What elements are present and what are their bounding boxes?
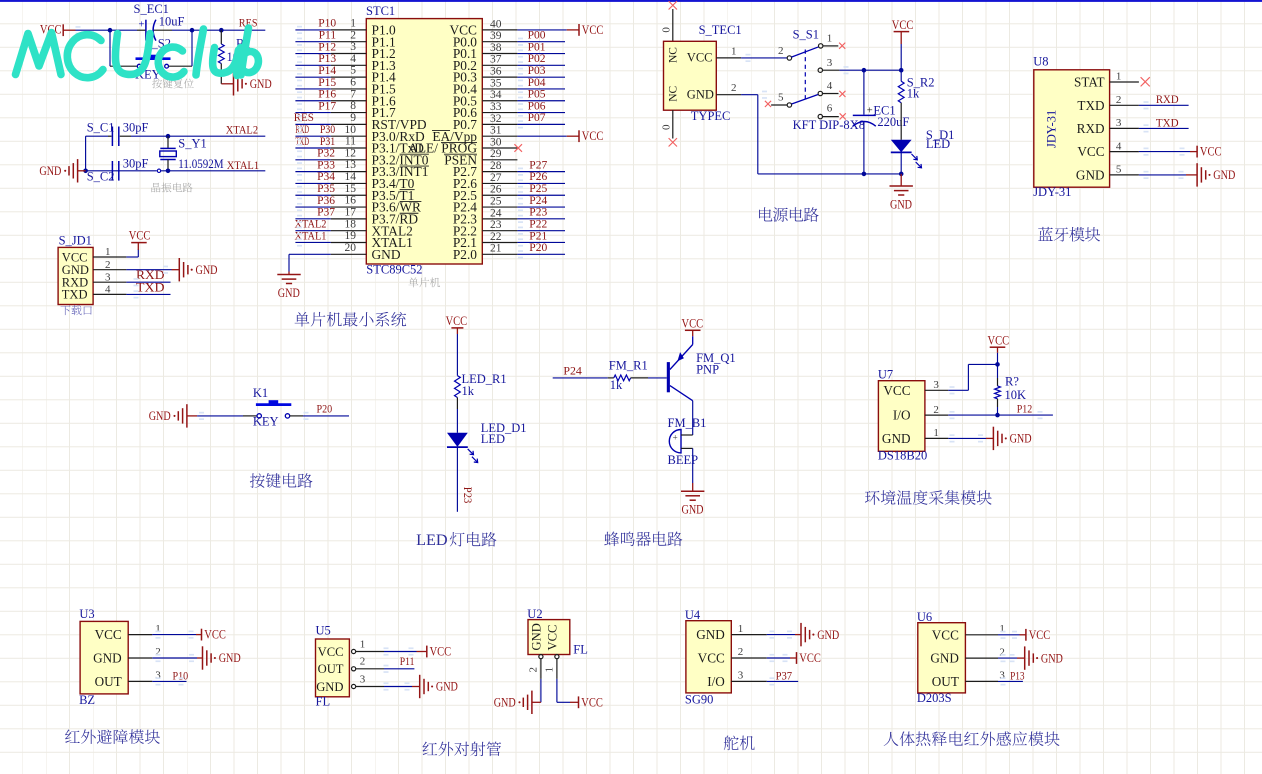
wire U6 VCC bbox=[998, 634, 1020, 636]
svg-text:XTAL1: XTAL1 bbox=[295, 230, 327, 242]
wire P17 to STC1 bbox=[295, 112, 330, 114]
node junction bottom rail LED bbox=[899, 172, 904, 177]
svg-text:P21: P21 bbox=[529, 230, 547, 242]
svg-text:3: 3 bbox=[360, 673, 366, 685]
svg-text:TXD: TXD bbox=[295, 136, 309, 148]
svg-text:GND: GND bbox=[890, 198, 912, 212]
svg-text:GND: GND bbox=[687, 87, 714, 101]
svg-text:VCC: VCC bbox=[988, 333, 1010, 347]
svg-text:3: 3 bbox=[933, 379, 939, 391]
node junction resistor top bbox=[219, 28, 224, 33]
svg-text:1: 1 bbox=[738, 623, 744, 635]
caption 人体热释电红外感应模块 bbox=[884, 731, 1060, 746]
node junction XTAL2 bbox=[166, 134, 171, 139]
svg-text:1: 1 bbox=[360, 638, 366, 650]
wire P05 from STC1 bbox=[517, 100, 565, 102]
svg-text:FL: FL bbox=[316, 694, 331, 708]
no-connect X switch pin 4 bbox=[839, 91, 845, 97]
svg-text:1k: 1k bbox=[610, 378, 623, 392]
svg-text:VCC: VCC bbox=[129, 229, 151, 243]
svg-text:P32: P32 bbox=[317, 148, 335, 160]
svg-text:P11: P11 bbox=[319, 30, 337, 42]
svg-text:P23: P23 bbox=[461, 487, 475, 504]
wire VCC pin40 of STC1 bbox=[517, 29, 566, 31]
svg-text:STAT: STAT bbox=[1074, 75, 1104, 90]
svg-text:P10: P10 bbox=[318, 18, 336, 30]
wire EA/Vpp pin31 to VCC bbox=[517, 135, 566, 137]
overline EA on pin 31 bbox=[432, 130, 450, 132]
svg-text:P27: P27 bbox=[529, 159, 547, 171]
svg-text:LED: LED bbox=[926, 137, 950, 151]
svg-text:VCC: VCC bbox=[1029, 628, 1051, 642]
svg-text:P04: P04 bbox=[528, 77, 546, 89]
svg-text:5: 5 bbox=[350, 65, 356, 77]
wire key branch right up bbox=[191, 30, 193, 66]
svg-text:P14: P14 bbox=[318, 65, 336, 77]
svg-text:31: 31 bbox=[490, 125, 502, 137]
switch S_S1 blade lower bbox=[792, 95, 819, 105]
wire P14 to STC1 bbox=[295, 76, 330, 78]
wire P25 from STC1 bbox=[517, 194, 565, 196]
overline WR on pin 16 bbox=[400, 200, 422, 202]
svg-text:P30: P30 bbox=[320, 124, 336, 136]
caption 按键复位 bbox=[152, 79, 194, 89]
wire U3 VCC bbox=[152, 634, 196, 636]
svg-text:VCC: VCC bbox=[883, 383, 910, 398]
wire U4 VCC bbox=[767, 657, 790, 659]
svg-text:P11: P11 bbox=[400, 654, 415, 668]
wire collector to buzzer bbox=[692, 401, 694, 435]
pin 0 top of S_TEC1 bbox=[672, 9, 674, 41]
switch S_S1 pin 4 bbox=[818, 91, 822, 95]
svg-text:GND: GND bbox=[682, 503, 704, 517]
wire key to P20 bbox=[303, 415, 349, 417]
wire TXD P31 to STC1 bbox=[295, 147, 330, 149]
ground GND (S_JD1) bbox=[178, 258, 180, 281]
svg-text:KEY: KEY bbox=[253, 414, 279, 428]
svg-text:P37: P37 bbox=[317, 207, 335, 219]
ground GND (crystal) bbox=[78, 170, 86, 172]
svg-text:30: 30 bbox=[490, 136, 502, 148]
svg-text:10uF: 10uF bbox=[159, 14, 185, 28]
svg-text:0: 0 bbox=[661, 124, 673, 130]
svg-text:FM_B1: FM_B1 bbox=[668, 416, 707, 430]
wire P15 to STC1 bbox=[295, 88, 330, 90]
svg-text:TXD: TXD bbox=[1077, 98, 1104, 113]
ground GND (STC1) bbox=[277, 274, 300, 276]
switch S_S1 blade upper bbox=[791, 47, 818, 57]
svg-text:P16: P16 bbox=[318, 89, 336, 101]
svg-text:U6: U6 bbox=[917, 610, 932, 624]
no-connect X switch pin 1 bbox=[839, 43, 845, 49]
svg-text:RXD: RXD bbox=[1156, 92, 1179, 106]
pin 1 stub of S_TEC1 bbox=[716, 57, 741, 59]
svg-text:S_JD1: S_JD1 bbox=[59, 234, 92, 248]
capacitor S_EC1 10uF bbox=[137, 29, 146, 31]
svg-text:P00: P00 bbox=[528, 30, 546, 42]
svg-text:VCC: VCC bbox=[581, 695, 603, 709]
svg-text:BZ: BZ bbox=[79, 693, 95, 707]
no-connect X switch pin 6 bbox=[840, 113, 846, 119]
svg-text:10: 10 bbox=[345, 124, 357, 136]
wire S_TEC1 pin1 to switch bbox=[741, 57, 787, 59]
svg-text:29: 29 bbox=[490, 148, 502, 160]
svg-text:R?: R? bbox=[1005, 375, 1019, 389]
switch S_S2 KEY (reset button) bbox=[110, 65, 137, 67]
svg-text:20: 20 bbox=[345, 242, 357, 254]
svg-text:NC: NC bbox=[668, 85, 680, 101]
svg-text:13: 13 bbox=[345, 159, 357, 171]
svg-text:220uF: 220uF bbox=[877, 115, 909, 129]
connector S_TEC1 body bbox=[664, 41, 717, 110]
wire S_TEC1 pin2 to bottom rail bbox=[741, 94, 758, 96]
wire RXD P30 to STC1 bbox=[295, 135, 330, 137]
power port VCC (U3) bbox=[201, 629, 203, 641]
svg-text:P15: P15 bbox=[318, 77, 336, 89]
svg-text:40: 40 bbox=[490, 18, 502, 30]
ground GND (U6) bbox=[1024, 646, 1026, 669]
svg-text:FM_R1: FM_R1 bbox=[609, 359, 648, 373]
caption 舵机 bbox=[724, 736, 755, 751]
svg-text:OUT: OUT bbox=[95, 674, 122, 689]
wire GND pin20 of STC1 bbox=[289, 253, 331, 255]
svg-text:25: 25 bbox=[490, 195, 502, 207]
svg-text:+: + bbox=[867, 105, 873, 116]
svg-text:10K: 10K bbox=[1005, 388, 1027, 402]
wire P16 to STC1 bbox=[295, 100, 330, 102]
wire U7 GND pin1 bbox=[948, 437, 986, 439]
svg-text:19: 19 bbox=[345, 230, 357, 242]
wire bottom crystal row bbox=[86, 170, 157, 172]
wire U8 VCC bbox=[1139, 151, 1190, 153]
svg-text:1: 1 bbox=[350, 18, 356, 30]
pin 0 bottom of S_TEC1 bbox=[672, 110, 674, 138]
caption 单片机最小系统 bbox=[295, 312, 407, 327]
wire P36 to STC1 bbox=[295, 206, 330, 208]
LED LED_D1 bbox=[447, 433, 468, 447]
svg-text:1: 1 bbox=[827, 32, 833, 44]
wire P34 to STC1 bbox=[295, 182, 330, 184]
svg-text:3: 3 bbox=[350, 41, 356, 53]
svg-text:P02: P02 bbox=[528, 53, 546, 65]
MCU STC1 body bbox=[366, 19, 482, 264]
svg-text:STC1: STC1 bbox=[366, 4, 395, 18]
svg-text:1: 1 bbox=[544, 667, 556, 673]
svg-text:GND: GND bbox=[696, 627, 725, 642]
svg-text:1: 1 bbox=[933, 427, 939, 439]
svg-text:P2.0: P2.0 bbox=[453, 247, 477, 262]
svg-text:P37: P37 bbox=[776, 669, 793, 683]
svg-text:P23: P23 bbox=[529, 207, 547, 219]
no-connect X bottom of S_TEC1 bbox=[669, 138, 677, 146]
svg-text:4: 4 bbox=[105, 284, 111, 296]
caption 下载口 bbox=[60, 305, 91, 315]
power port VCC (pin31) bbox=[578, 130, 580, 142]
caption 单片机 bbox=[408, 277, 440, 287]
svg-text:17: 17 bbox=[345, 206, 357, 218]
svg-text:30pF: 30pF bbox=[123, 121, 149, 135]
svg-text:1: 1 bbox=[1116, 71, 1122, 83]
svg-text:VCC: VCC bbox=[204, 628, 226, 642]
svg-text:P01: P01 bbox=[528, 41, 546, 53]
resistor R? 10K bbox=[997, 364, 999, 378]
svg-text:1k: 1k bbox=[907, 87, 920, 101]
svg-text:OUT: OUT bbox=[318, 662, 344, 676]
svg-text:15: 15 bbox=[345, 183, 357, 195]
pin 2 stub of S_TEC1 bbox=[716, 94, 741, 96]
wire U6 GND bbox=[998, 657, 1017, 659]
node junction pullup bottom bbox=[995, 413, 1000, 418]
overline T1 on pin 15 bbox=[400, 189, 415, 191]
svg-text:3: 3 bbox=[1116, 117, 1122, 129]
switch S_S1 pin 5 bbox=[771, 104, 787, 106]
wire P06 from STC1 bbox=[517, 112, 565, 114]
svg-text:27: 27 bbox=[490, 172, 502, 184]
wire to net label XTAL2 bbox=[168, 135, 265, 137]
svg-text:LED: LED bbox=[416, 531, 448, 549]
wire RES node to resistor bbox=[192, 29, 221, 31]
caption 环境温度采集模块 bbox=[865, 490, 992, 505]
caption 按键电路 bbox=[250, 473, 313, 488]
svg-text:34: 34 bbox=[490, 89, 502, 101]
wire S_JD1 pin4 TXD bbox=[126, 293, 170, 295]
wire P33 to STC1 bbox=[295, 171, 330, 173]
svg-text:S_TEC1: S_TEC1 bbox=[699, 23, 742, 37]
svg-text:1: 1 bbox=[731, 45, 737, 57]
wire U3 GND bbox=[152, 657, 197, 659]
svg-text:4: 4 bbox=[1116, 140, 1122, 152]
caption 蜂鸣器电路 bbox=[604, 532, 682, 547]
svg-text:3: 3 bbox=[105, 271, 111, 283]
node junction reset-left bbox=[108, 28, 113, 33]
svg-text:GND: GND bbox=[1041, 651, 1063, 665]
svg-text:P10: P10 bbox=[173, 669, 189, 683]
svg-text:P07: P07 bbox=[528, 112, 546, 124]
wire P24 to FM_R1 bbox=[553, 377, 608, 379]
switch S_S1 pin 2 bbox=[787, 56, 791, 60]
svg-text:P31: P31 bbox=[320, 136, 336, 148]
svg-text:GND: GND bbox=[817, 628, 839, 642]
wire U4 GND bbox=[767, 634, 795, 636]
svg-text:RES: RES bbox=[294, 112, 314, 124]
wire RES to STC1 bbox=[295, 123, 330, 125]
svg-text:39: 39 bbox=[490, 30, 502, 42]
svg-text:GND: GND bbox=[930, 651, 959, 666]
svg-text:VCC: VCC bbox=[1077, 144, 1104, 159]
caption 蓝牙模块 bbox=[1038, 227, 1100, 242]
wire P13 to STC1 bbox=[295, 64, 330, 66]
wire U5 OUT to P11 bbox=[384, 668, 414, 670]
ground GND (U2) bbox=[531, 691, 533, 714]
no-connect X pin1 STAT bbox=[1141, 77, 1150, 86]
resistor FM_R1 1k bbox=[608, 377, 614, 379]
ground GND (U3) bbox=[202, 646, 204, 669]
power port VCC (U8) bbox=[1196, 146, 1198, 158]
wire P37 to STC1 bbox=[295, 218, 330, 220]
overline INT1 on pin 13 bbox=[400, 165, 429, 167]
wire P12 to STC1 bbox=[295, 53, 330, 55]
svg-text:SG90: SG90 bbox=[685, 693, 713, 707]
no-connect X top of S_TEC1 bbox=[669, 1, 677, 9]
svg-text:GND: GND bbox=[93, 651, 122, 666]
svg-text:1: 1 bbox=[105, 246, 111, 258]
svg-text:P24: P24 bbox=[529, 195, 547, 207]
power port VCC (U4) bbox=[796, 652, 798, 664]
svg-text:NC: NC bbox=[668, 47, 680, 63]
svg-text:4: 4 bbox=[350, 53, 356, 65]
svg-text:GND: GND bbox=[882, 431, 911, 446]
ground GND (U5) bbox=[419, 675, 421, 698]
svg-text:TXD: TXD bbox=[62, 288, 88, 302]
svg-text:JDY-31: JDY-31 bbox=[1033, 185, 1071, 199]
switch S_S1 pin 6 bbox=[818, 114, 822, 118]
wire markers (light blue) bbox=[297, 26, 302, 28]
svg-text:GND: GND bbox=[1213, 168, 1235, 182]
svg-text:VCC: VCC bbox=[932, 627, 959, 642]
wire P20 from STC1 bbox=[517, 253, 565, 255]
svg-text:U5: U5 bbox=[316, 624, 331, 638]
no-connect X switch pin 5 bbox=[765, 101, 771, 107]
wire P04 from STC1 bbox=[517, 88, 565, 90]
svg-text:+: + bbox=[673, 432, 678, 442]
svg-text:VCC: VCC bbox=[582, 129, 604, 143]
svg-text:2: 2 bbox=[360, 656, 366, 668]
svg-text:30pF: 30pF bbox=[123, 157, 149, 171]
module U6 body bbox=[918, 623, 966, 693]
wire P22 from STC1 bbox=[517, 230, 565, 232]
svg-text:6: 6 bbox=[827, 103, 833, 115]
svg-text:GND: GND bbox=[278, 286, 300, 300]
power port VCC (U5) bbox=[426, 646, 428, 658]
svg-text:P20: P20 bbox=[529, 242, 547, 254]
wire P23 from STC1 bbox=[517, 218, 565, 220]
node junction reset-right bbox=[190, 28, 195, 33]
svg-text:P36: P36 bbox=[317, 195, 335, 207]
wire FM_R1 to base bbox=[648, 377, 667, 379]
bluetooth U8 body bbox=[1034, 70, 1110, 187]
svg-text:12: 12 bbox=[345, 147, 357, 159]
svg-text:2: 2 bbox=[528, 667, 540, 673]
svg-text:21: 21 bbox=[490, 243, 502, 255]
pin 2 of U2 bbox=[539, 655, 543, 659]
caption 红外避障模块 bbox=[65, 729, 160, 744]
svg-text:P34: P34 bbox=[317, 171, 335, 183]
svg-text:VCC: VCC bbox=[682, 316, 704, 330]
wire XTAL2 to STC1 bbox=[295, 230, 330, 232]
transistor FM_Q1 PNP bbox=[667, 362, 670, 392]
svg-text:38: 38 bbox=[490, 42, 502, 54]
svg-text:VCC: VCC bbox=[687, 50, 713, 64]
node junction pullup top bbox=[995, 362, 1000, 367]
overline PROG on pin 30 bbox=[441, 141, 477, 143]
crystal S_Y1 11.0592M bbox=[167, 136, 169, 148]
svg-text:GND: GND bbox=[196, 263, 218, 277]
wire P27 from STC1 bbox=[517, 171, 565, 173]
module U3 body bbox=[80, 621, 128, 694]
svg-text:OUT: OUT bbox=[932, 674, 959, 689]
svg-text:K1: K1 bbox=[253, 386, 268, 400]
svg-text:S_Y1: S_Y1 bbox=[178, 137, 206, 151]
wire P01 from STC1 bbox=[517, 53, 565, 55]
switch S_S1 link dashed bbox=[804, 50, 806, 100]
svg-text:3: 3 bbox=[738, 670, 744, 682]
ground GND (key circuit) bbox=[186, 404, 188, 427]
svg-text:BEEP: BEEP bbox=[668, 453, 699, 467]
svg-text:VCC: VCC bbox=[546, 625, 560, 651]
svg-text:2: 2 bbox=[999, 646, 1005, 658]
svg-text:GND: GND bbox=[436, 680, 458, 694]
ground GND (buzzer) bbox=[692, 483, 694, 491]
switch S_S1 pin 3 bbox=[818, 68, 822, 72]
svg-text:5: 5 bbox=[778, 92, 784, 104]
wire U7 VCC pin3 up to rail bbox=[948, 389, 968, 391]
svg-text:2: 2 bbox=[1116, 94, 1122, 106]
svg-text:DS18B20: DS18B20 bbox=[878, 449, 927, 463]
svg-text:P22: P22 bbox=[529, 218, 547, 230]
svg-text:P20: P20 bbox=[317, 402, 333, 416]
power port VCC (pin40) bbox=[578, 24, 580, 36]
wire VCC to S_EC1 bbox=[76, 29, 138, 31]
svg-text:VCC: VCC bbox=[318, 645, 344, 659]
svg-text:3: 3 bbox=[999, 670, 1005, 682]
svg-text:P25: P25 bbox=[529, 183, 547, 195]
svg-text:GND: GND bbox=[1010, 432, 1032, 446]
svg-text:FL: FL bbox=[573, 643, 588, 657]
svg-text:GND: GND bbox=[530, 623, 544, 650]
node junction crystal left bbox=[83, 169, 88, 174]
svg-text:28: 28 bbox=[490, 160, 502, 172]
svg-text:22: 22 bbox=[490, 231, 502, 243]
wire VCC to rail junction bbox=[900, 44, 902, 70]
wire P00 from STC1 bbox=[517, 41, 565, 43]
svg-text:P12: P12 bbox=[318, 41, 336, 53]
svg-text:RXD: RXD bbox=[295, 124, 309, 136]
ground GND (U8) bbox=[1196, 163, 1198, 186]
svg-text:VCC: VCC bbox=[430, 645, 452, 659]
svg-text:P35: P35 bbox=[317, 183, 335, 195]
module U5 body bbox=[316, 639, 350, 697]
svg-text:P03: P03 bbox=[528, 65, 546, 77]
svg-text:3: 3 bbox=[827, 57, 833, 69]
svg-text:9: 9 bbox=[350, 112, 356, 124]
svg-text:8: 8 bbox=[350, 100, 356, 112]
svg-text:1: 1 bbox=[999, 623, 1005, 635]
wire U8 GND bbox=[1139, 174, 1186, 176]
wire U3 OUT to P10 bbox=[152, 680, 186, 682]
overline RD on pin 17 bbox=[400, 212, 419, 214]
wire to net label RES bbox=[221, 29, 265, 31]
resistor LED_R1 1k bbox=[455, 376, 461, 398]
module U4 body bbox=[686, 621, 731, 693]
node junction bottom rail EC1 bbox=[862, 172, 867, 177]
svg-text:JDY-31: JDY-31 bbox=[1045, 110, 1059, 148]
power port VCC (U2) bbox=[578, 696, 580, 708]
svg-text:5: 5 bbox=[1116, 164, 1122, 176]
svg-text:37: 37 bbox=[490, 54, 502, 66]
wire P07 from STC1 bbox=[517, 123, 565, 125]
svg-text:S_C1: S_C1 bbox=[87, 121, 115, 135]
svg-text:U4: U4 bbox=[685, 608, 701, 622]
svg-text:4: 4 bbox=[827, 80, 833, 92]
LED S_D1 bbox=[891, 140, 912, 152]
svg-text:VCC: VCC bbox=[95, 627, 122, 642]
svg-text:S_S1: S_S1 bbox=[793, 28, 819, 42]
wire P11 to STC1 bbox=[295, 41, 330, 43]
svg-text:P13: P13 bbox=[318, 53, 336, 65]
wire S_JD1 pin2 to GND bbox=[126, 269, 171, 271]
svg-text:PNP: PNP bbox=[696, 362, 719, 376]
svg-text:P17: P17 bbox=[318, 100, 336, 112]
